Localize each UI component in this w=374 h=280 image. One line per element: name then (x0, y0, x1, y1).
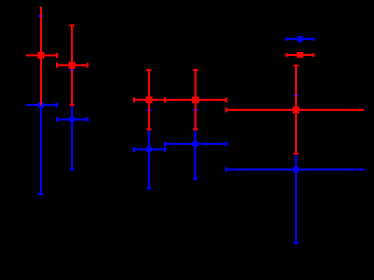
R5 x error bar (226, 109, 364, 111)
B2 bottom cap (70, 169, 75, 171)
B3 marker (146, 146, 153, 153)
errorbar point R1 (26, 7, 57, 106)
B5 x error bar (226, 169, 364, 171)
B1 bottom cap (39, 193, 44, 195)
R4 bottom cap (193, 128, 198, 130)
R3 left cap (133, 97, 135, 102)
R3 bottom cap (147, 128, 152, 130)
R1 y error bar (40, 7, 42, 106)
R2 left cap (56, 63, 58, 68)
errorbar point R2 (57, 25, 88, 105)
R3 y error bar (148, 70, 150, 129)
B1 marker (38, 102, 45, 109)
B5 marker (293, 166, 300, 173)
errorbar point B5 (226, 95, 364, 243)
B4 marker (192, 141, 199, 148)
R2 bottom cap (69, 104, 74, 106)
B5 y error bar (295, 153, 297, 243)
B3 x error bar (134, 148, 165, 150)
B5 bottom cap (294, 242, 299, 244)
R4 y error bar (195, 70, 197, 129)
B3 y error bar (148, 110, 150, 188)
R4 marker (192, 97, 199, 104)
R4 top cap (193, 69, 198, 71)
R3 top cap (147, 69, 152, 71)
R4 x error bar (165, 99, 226, 101)
R5 marker (293, 107, 300, 114)
B4 top cap (193, 109, 198, 111)
B1 right cap (56, 103, 58, 108)
R5 top cap (294, 65, 299, 67)
B2 x error bar (57, 119, 88, 121)
B5 top cap (294, 94, 299, 96)
R1 right cap (56, 53, 58, 58)
R2 marker (69, 62, 76, 69)
B3 right cap (164, 147, 166, 152)
R2 x error bar (57, 64, 88, 66)
B2 left cap (56, 117, 58, 122)
errorbar point B1 (26, 16, 57, 194)
R3 marker (146, 96, 153, 103)
R4 left cap (164, 97, 166, 102)
R2 y error bar (71, 25, 73, 105)
errorbar point R4 (165, 70, 226, 129)
B4 bottom cap (193, 178, 198, 180)
legend red entry (286, 52, 313, 58)
B4 left cap (164, 141, 166, 146)
B4 y error bar (194, 110, 196, 179)
B2 marker (69, 116, 76, 123)
B2 top cap (70, 69, 75, 71)
R1 marker (38, 52, 45, 59)
R1 x error bar (26, 54, 57, 56)
B4 right cap (225, 141, 227, 146)
B3 left cap (133, 147, 135, 152)
B1 x error bar (26, 104, 57, 106)
errorbar point R5 (226, 66, 364, 154)
errorbar point B4 (165, 110, 226, 179)
R2 top cap (69, 24, 74, 26)
errorbar point R3 (134, 70, 165, 129)
errorbar point B3 (134, 110, 165, 188)
B2 right cap (87, 117, 89, 122)
B1 top cap (39, 15, 44, 17)
R5 left cap (225, 107, 227, 112)
R2 right cap (87, 63, 89, 68)
B3 top cap (147, 109, 152, 111)
R3 x error bar (134, 99, 165, 101)
R3 right cap (164, 97, 166, 102)
B5 left cap (225, 167, 227, 172)
B2 y error bar (71, 70, 73, 170)
R5 bottom cap (294, 153, 299, 155)
B1 y error bar (40, 103, 42, 194)
legend blue entry (286, 36, 313, 43)
R4 right cap (225, 97, 227, 102)
B3 bottom cap (147, 187, 152, 189)
errorbar point B2 (57, 70, 88, 170)
B4 x error bar (165, 143, 226, 145)
R5 y error bar (295, 66, 297, 154)
